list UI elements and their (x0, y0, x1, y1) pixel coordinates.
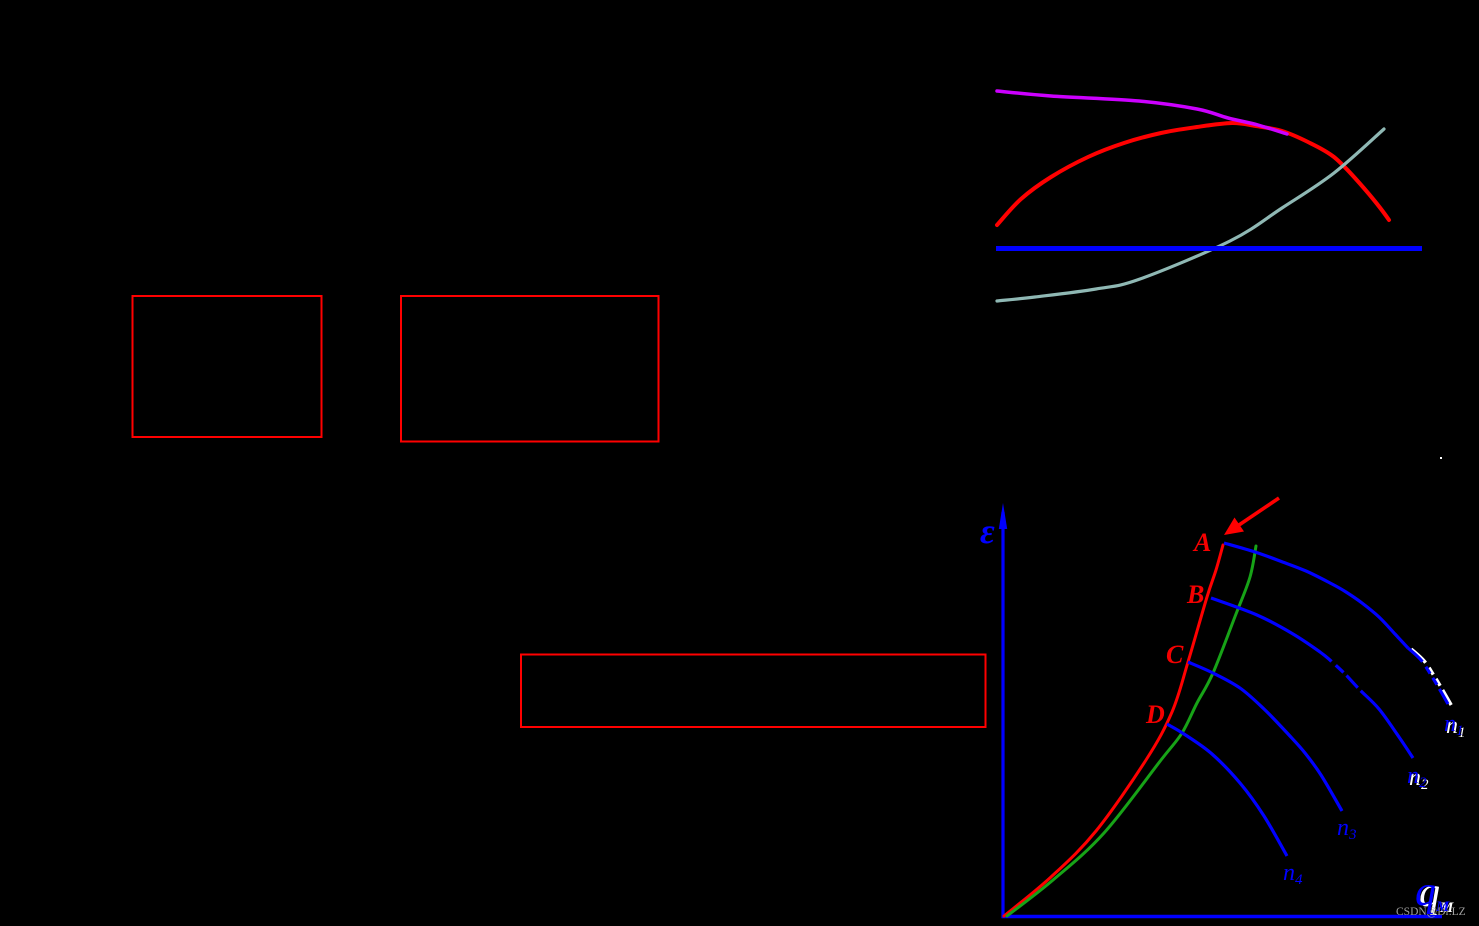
horizontal axis (1002, 915, 1443, 919)
n2 gap overlays (1332, 662, 1336, 666)
svg-text:A: A (1192, 528, 1211, 557)
blue speed line n1 solid part (1224, 543, 1408, 648)
blue speed line n3 (1188, 662, 1342, 811)
teal rising curve (997, 129, 1384, 301)
svg-text:C: C (1166, 640, 1184, 669)
red arrow head (1224, 518, 1244, 536)
red arrow at A: shaft (1239, 498, 1279, 525)
n1 dashed tail (1408, 648, 1448, 704)
svg-text:q: q (1415, 869, 1436, 915)
green line (1007, 546, 1256, 916)
blue horizontal line (996, 246, 1422, 251)
blue speed line n4 (1167, 724, 1287, 856)
red rectangle 1 (left) (133, 296, 322, 437)
blue speed line n2 (1211, 598, 1413, 758)
red rectangle 2 (middle) (401, 296, 659, 442)
vertical axis arrowhead (999, 503, 1007, 529)
tiny white dot (1440, 457, 1442, 459)
red operating line (through D C B A) (1004, 545, 1223, 916)
svg-text:B: B (1186, 580, 1204, 609)
red hump curve (997, 123, 1389, 225)
svg-text:ε: ε (980, 511, 995, 551)
svg-text:M: M (1435, 899, 1450, 915)
magenta curve (997, 91, 1287, 134)
red rectangle 3 (bottom center) (521, 655, 986, 728)
svg-text:D: D (1145, 700, 1165, 729)
n1 dashed tail white shadow (1411, 649, 1451, 705)
vertical axis (epsilon) (1001, 512, 1004, 918)
